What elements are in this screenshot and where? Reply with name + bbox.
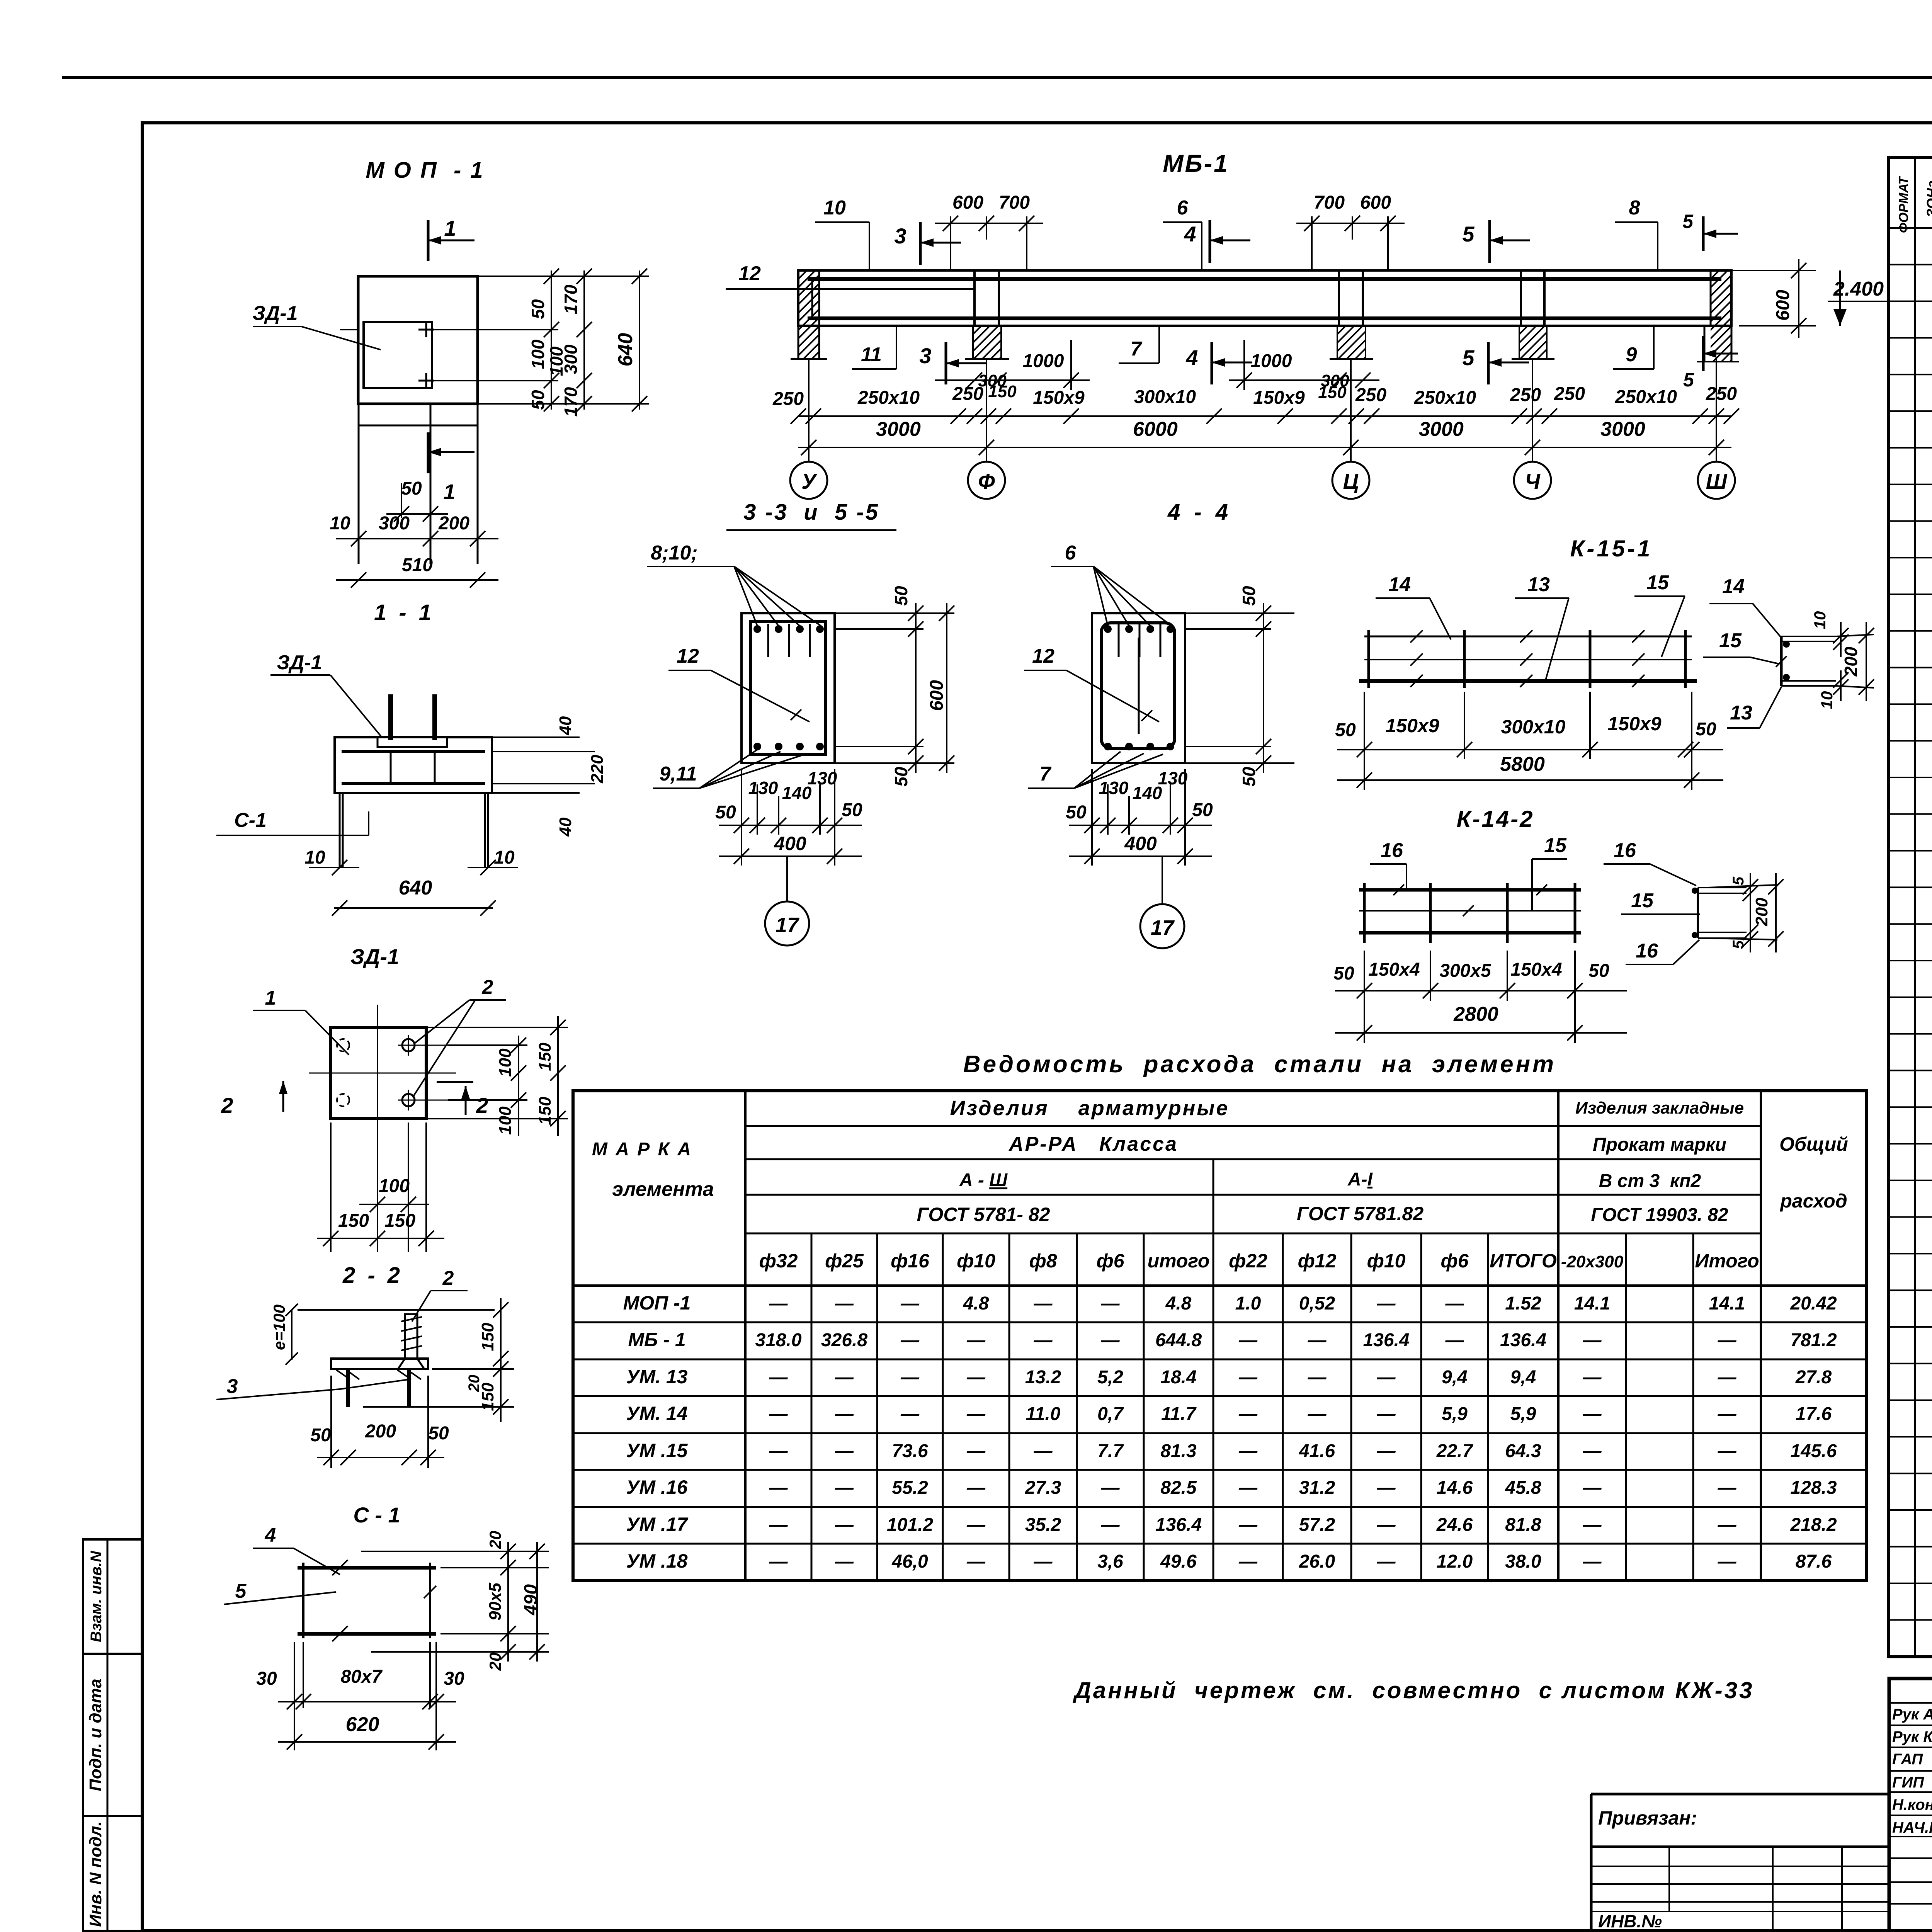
- svg-text:250: 250: [1355, 385, 1386, 405]
- svg-text:ф32: ф32: [759, 1250, 798, 1272]
- svg-text:—: —: [1583, 1478, 1602, 1498]
- svg-text:—: —: [835, 1551, 854, 1572]
- svg-text:12.0: 12.0: [1437, 1551, 1473, 1572]
- svg-text:ГОСТ 5781- 82: ГОСТ 5781- 82: [917, 1204, 1050, 1225]
- К-14-2 cross-section: [1697, 888, 1699, 938]
- svg-text:У: У: [801, 469, 818, 493]
- dims right 20/90x5/490/20: [440, 1567, 549, 1568]
- svg-text:150x9: 150x9: [1607, 713, 1661, 735]
- svg-text:2800: 2800: [1453, 1003, 1498, 1026]
- svg-text:220: 220: [588, 755, 607, 784]
- top rebar line: [342, 750, 485, 753]
- svg-text:—: —: [1101, 1293, 1120, 1314]
- cs dims 5/200/5: [1708, 885, 1777, 888]
- svg-text:—: —: [1238, 1441, 1258, 1461]
- svg-text:150: 150: [536, 1043, 554, 1071]
- svg-text:3,6: 3,6: [1097, 1551, 1123, 1572]
- svg-text:—: —: [966, 1367, 986, 1388]
- leader to top bar: [1094, 566, 1108, 626]
- 1-1 body rect: [335, 737, 492, 793]
- bottom rebar dot: [796, 743, 804, 750]
- svg-text:5: 5: [235, 1580, 247, 1602]
- svg-text:ф22: ф22: [1229, 1250, 1267, 1272]
- svg-text:—: —: [966, 1441, 986, 1461]
- svg-text:50: 50: [528, 299, 548, 319]
- svg-text:4: 4: [1185, 345, 1198, 370]
- svg-text:9,4: 9,4: [1442, 1367, 1468, 1388]
- svg-text:—: —: [966, 1551, 986, 1572]
- svg-text:6000: 6000: [1133, 418, 1178, 440]
- svg-text:4.8: 4.8: [963, 1293, 989, 1314]
- svg-text:250: 250: [1510, 385, 1541, 405]
- svg-text:50: 50: [1588, 961, 1609, 981]
- svg-text:700: 700: [1314, 192, 1345, 213]
- svg-text:—: —: [835, 1441, 854, 1461]
- svg-text:—: —: [1101, 1330, 1120, 1350]
- dim 640 vertical: [639, 270, 640, 410]
- svg-text:—: —: [1308, 1404, 1327, 1424]
- привязан zone grid: [1591, 1793, 1889, 1796]
- svg-text:—: —: [1238, 1551, 1258, 1572]
- bottom rebar dot: [816, 743, 824, 750]
- svg-text:—: —: [769, 1404, 788, 1424]
- circle 17 left: [786, 856, 788, 901]
- svg-text:—: —: [1445, 1293, 1464, 1314]
- svg-text:16: 16: [1614, 839, 1636, 862]
- svg-text:1 - 1: 1 - 1: [374, 600, 434, 625]
- svg-text:17: 17: [776, 913, 800, 937]
- svg-text:22.7: 22.7: [1436, 1441, 1474, 1461]
- svg-text:ЗОНа: ЗОНа: [1924, 180, 1932, 218]
- svg-text:—: —: [966, 1330, 986, 1350]
- svg-text:50: 50: [715, 802, 736, 823]
- svg-text:130: 130: [748, 778, 778, 798]
- svg-text:50: 50: [310, 1425, 331, 1446]
- svg-text:15: 15: [1631, 889, 1654, 912]
- svg-text:ф8: ф8: [1029, 1250, 1057, 1272]
- svg-text:620: 620: [346, 1713, 379, 1736]
- grid line Ш: [1716, 359, 1717, 461]
- svg-text:510: 510: [402, 555, 433, 575]
- svg-text:3000: 3000: [1600, 418, 1645, 440]
- svg-text:ИНВ.№: ИНВ.№: [1598, 1911, 1662, 1931]
- svg-text:200: 200: [438, 513, 469, 534]
- svg-text:5: 5: [1462, 222, 1475, 246]
- svg-text:Н.контр.: Н.контр.: [1892, 1796, 1932, 1813]
- svg-text:—: —: [1718, 1515, 1737, 1535]
- Ведомость grid: [573, 1091, 1866, 1580]
- svg-text:81.8: 81.8: [1505, 1515, 1541, 1535]
- svg-text:—: —: [835, 1404, 854, 1424]
- stirrup: [974, 279, 976, 318]
- К-15-1 vertical bar: [1589, 630, 1592, 688]
- svg-text:300x5: 300x5: [1439, 961, 1492, 981]
- svg-text:150: 150: [338, 1211, 369, 1231]
- svg-text:УМ .17: УМ .17: [626, 1514, 689, 1535]
- svg-text:5: 5: [1462, 345, 1475, 370]
- svg-text:40: 40: [556, 716, 575, 735]
- svg-text:14: 14: [1388, 573, 1411, 596]
- svg-text:250: 250: [952, 384, 983, 404]
- svg-text:—: —: [966, 1478, 986, 1498]
- svg-text:13.2: 13.2: [1025, 1367, 1061, 1388]
- svg-text:Ведомость расхода стали на: Ведомость расхода стали на элемент: [963, 1051, 1556, 1078]
- bottom rebar dot: [1167, 743, 1174, 750]
- beam top rebar: [808, 277, 1721, 281]
- svg-text:Рук КБ-1: Рук КБ-1: [1892, 1728, 1932, 1745]
- svg-text:Общий: Общий: [1779, 1133, 1848, 1155]
- svg-text:—: —: [1034, 1330, 1053, 1350]
- 1-1 top plate: [378, 737, 447, 747]
- svg-text:В ст 3 кп2: В ст 3 кп2: [1599, 1171, 1701, 1191]
- svg-text:11.7: 11.7: [1161, 1404, 1197, 1424]
- svg-text:—: —: [1583, 1404, 1602, 1424]
- title block grid: [1889, 1679, 1932, 1931]
- svg-text:Итого: Итого: [1695, 1250, 1759, 1272]
- 1-1 dim 640: [334, 907, 493, 909]
- svg-text:45.8: 45.8: [1505, 1478, 1541, 1498]
- stirrup: [998, 279, 1000, 318]
- svg-text:150: 150: [988, 382, 1017, 401]
- left attribute table: [83, 1539, 142, 1931]
- svg-text:128.3: 128.3: [1790, 1478, 1837, 1498]
- svg-text:13: 13: [1527, 573, 1550, 596]
- svg-text:150: 150: [1318, 383, 1347, 402]
- svg-text:250x10: 250x10: [857, 388, 920, 408]
- hook: [1160, 624, 1162, 657]
- leader to top bar: [734, 566, 779, 626]
- svg-text:—: —: [1377, 1404, 1396, 1424]
- svg-text:6: 6: [1065, 542, 1077, 564]
- bottom dim 510: [336, 579, 498, 581]
- svg-text:7: 7: [1040, 763, 1052, 785]
- section mark 1 (bottom): [427, 432, 430, 473]
- leader to top bar: [734, 566, 757, 626]
- svg-text:15: 15: [1544, 834, 1567, 857]
- bottom dim 10/300/200: [336, 538, 498, 539]
- support Ч: [1520, 270, 1522, 326]
- svg-text:—: —: [1238, 1515, 1258, 1535]
- К-14-2 vertical bar: [1574, 883, 1577, 943]
- svg-text:4: 4: [1184, 222, 1196, 246]
- svg-text:600: 600: [927, 680, 947, 711]
- hook: [788, 624, 790, 657]
- svg-text:МОП -1: МОП -1: [623, 1292, 691, 1314]
- svg-text:—: —: [1718, 1441, 1737, 1461]
- svg-text:14: 14: [1722, 575, 1745, 598]
- svg-text:К-14-2: К-14-2: [1457, 806, 1534, 832]
- svg-text:20: 20: [486, 1653, 504, 1671]
- svg-text:ф16: ф16: [891, 1250, 930, 1272]
- К-15-1 cross-section: [1780, 636, 1783, 686]
- top rule of sheet: [62, 76, 1932, 79]
- grid circle Ф: [968, 462, 1005, 499]
- К-14-2 bottom rail (thick): [1359, 931, 1581, 935]
- svg-text:—: —: [1308, 1330, 1327, 1350]
- svg-text:1: 1: [444, 216, 456, 240]
- svg-text:200: 200: [1841, 646, 1861, 677]
- hole top: [402, 1039, 415, 1051]
- svg-text:М О П - 1: М О П - 1: [366, 158, 484, 183]
- svg-text:30: 30: [444, 1668, 464, 1689]
- svg-text:250x10: 250x10: [1414, 388, 1476, 408]
- svg-text:ф6: ф6: [1440, 1250, 1469, 1272]
- svg-text:М А Р К А: М А Р К А: [592, 1139, 692, 1160]
- svg-text:—: —: [835, 1367, 854, 1388]
- support Ш (right end): [1619, 270, 1830, 362]
- svg-text:170: 170: [561, 284, 581, 314]
- svg-text:ГОСТ 19903. 82: ГОСТ 19903. 82: [1591, 1205, 1728, 1225]
- extension lines right: [492, 736, 580, 738]
- svg-text:16: 16: [1636, 940, 1658, 962]
- spec table grid: [1889, 158, 1932, 1656]
- grid line Ц: [1350, 359, 1352, 461]
- svg-text:8: 8: [1629, 197, 1640, 219]
- svg-text:e=100: e=100: [270, 1304, 288, 1350]
- svg-text:3000: 3000: [1419, 418, 1464, 440]
- svg-text:—: —: [966, 1515, 986, 1535]
- svg-text:2: 2: [442, 1267, 454, 1289]
- svg-text:15: 15: [1719, 629, 1742, 652]
- К-15-1 vertical bar: [1684, 630, 1687, 688]
- svg-text:90x5: 90x5: [486, 1583, 505, 1621]
- svg-text:—: —: [769, 1515, 788, 1535]
- svg-text:4.8: 4.8: [1165, 1293, 1192, 1314]
- svg-text:100: 100: [496, 1048, 515, 1077]
- rail tick: [1410, 630, 1423, 643]
- stirrup rounded: [1101, 623, 1175, 748]
- svg-text:—: —: [900, 1293, 920, 1314]
- svg-text:—: —: [900, 1404, 920, 1424]
- beam 600 dim right: [1731, 270, 1816, 271]
- svg-text:26.0: 26.0: [1299, 1551, 1335, 1572]
- svg-text:50: 50: [1239, 586, 1259, 606]
- top rebar dot: [1104, 625, 1112, 633]
- anchor cross top: [418, 329, 434, 331]
- svg-text:1.52: 1.52: [1505, 1293, 1541, 1314]
- svg-text:—: —: [1718, 1551, 1737, 1572]
- svg-text:ф25: ф25: [825, 1250, 864, 1272]
- circle 17 right: [1162, 856, 1163, 904]
- К-15-1 vertical bar: [1367, 630, 1370, 688]
- 4-4 right dims: [1185, 612, 1294, 614]
- bottom rebar dot: [753, 743, 761, 750]
- svg-text:18.4: 18.4: [1160, 1367, 1196, 1388]
- svg-text:31.2: 31.2: [1299, 1478, 1335, 1498]
- svg-text:3: 3: [919, 344, 931, 368]
- svg-text:644.8: 644.8: [1155, 1330, 1202, 1350]
- svg-text:К-15-1: К-15-1: [1570, 536, 1653, 561]
- К-15-1 bottom rail (thick): [1359, 679, 1697, 683]
- svg-text:12: 12: [738, 262, 761, 285]
- svg-text:9,11: 9,11: [659, 763, 697, 785]
- ЗД-1 plate rect: [331, 1027, 426, 1119]
- svg-text:50: 50: [1333, 963, 1354, 984]
- svg-text:64.3: 64.3: [1505, 1441, 1541, 1461]
- top rebar dot: [1167, 625, 1174, 633]
- svg-text:136.4: 136.4: [1500, 1330, 1546, 1350]
- svg-text:49.6: 49.6: [1160, 1551, 1197, 1572]
- svg-text:400: 400: [774, 833, 806, 854]
- svg-text:Подп. и дата: Подп. и дата: [86, 1679, 105, 1791]
- svg-text:АР-РА Класса: АР-РА Класса: [1008, 1133, 1178, 1155]
- svg-text:250: 250: [772, 389, 804, 409]
- svg-text:150: 150: [478, 1323, 497, 1351]
- bottom rebar line: [342, 782, 485, 785]
- hole bottom: [402, 1094, 415, 1106]
- svg-text:35.2: 35.2: [1025, 1515, 1061, 1535]
- svg-text:20: 20: [486, 1531, 504, 1549]
- stirrup: [1338, 279, 1340, 318]
- svg-text:16: 16: [1381, 839, 1403, 862]
- svg-text:50: 50: [891, 767, 911, 787]
- svg-text:400: 400: [1124, 833, 1157, 854]
- svg-text:Рук АБ-1: Рук АБ-1: [1892, 1706, 1932, 1723]
- right dim 100/100: [448, 1044, 527, 1046]
- svg-text:ф10: ф10: [957, 1250, 995, 1272]
- svg-text:0,52: 0,52: [1299, 1293, 1335, 1314]
- svg-text:130: 130: [1158, 768, 1188, 788]
- rail tick: [1632, 630, 1645, 643]
- svg-text:ф10: ф10: [1367, 1250, 1406, 1272]
- bottom rebar dot: [1104, 743, 1112, 750]
- С-1 ticks on bars: [332, 1560, 348, 1575]
- svg-text:ГАП: ГАП: [1892, 1751, 1923, 1768]
- svg-text:3: 3: [894, 224, 906, 248]
- svg-text:8;10;: 8;10;: [651, 542, 697, 564]
- top rebar dot: [1125, 625, 1133, 633]
- ЗД-1 inset plate: [364, 322, 432, 388]
- svg-text:А - Ш: А - Ш: [959, 1170, 1008, 1190]
- support Ц: [1338, 270, 1340, 326]
- svg-text:—: —: [1101, 1478, 1120, 1498]
- beam bottom rebar: [808, 316, 1721, 320]
- svg-text:итого: итого: [1148, 1250, 1210, 1272]
- С-1 frame: bottom bar: [298, 1632, 436, 1636]
- svg-text:—: —: [1034, 1551, 1053, 1572]
- svg-text:10: 10: [823, 197, 846, 219]
- С-1 frame: top bar: [298, 1566, 436, 1570]
- svg-text:Привязан:: Привязан:: [1598, 1807, 1697, 1829]
- svg-text:100: 100: [379, 1176, 410, 1196]
- svg-text:50: 50: [1192, 800, 1213, 820]
- svg-text:200: 200: [1752, 898, 1771, 927]
- rail tick: [1520, 630, 1532, 643]
- stirrup: [1520, 279, 1522, 318]
- leader to top bar: [734, 566, 800, 626]
- svg-text:5: 5: [1683, 369, 1694, 391]
- svg-text:-20х300: -20х300: [1561, 1252, 1624, 1271]
- svg-text:10: 10: [494, 847, 515, 868]
- К-14-2 ticks: [1393, 884, 1404, 895]
- svg-text:—: —: [1718, 1367, 1737, 1388]
- section mark 1 (top): [427, 220, 430, 261]
- svg-text:1000: 1000: [1023, 351, 1064, 371]
- svg-text:5,9: 5,9: [1442, 1404, 1468, 1424]
- column edges below plate: [358, 404, 360, 564]
- svg-text:—: —: [1377, 1478, 1396, 1498]
- svg-text:10: 10: [330, 513, 350, 534]
- svg-text:3 -3 и 5 -5: 3 -3 и 5 -5: [743, 500, 879, 525]
- svg-text:150: 150: [478, 1383, 497, 1411]
- svg-text:—: —: [769, 1367, 788, 1388]
- svg-text:Изделия арматурные: Изделия арматурные: [950, 1097, 1230, 1120]
- stirrup rect: [750, 621, 826, 754]
- svg-text:—: —: [1308, 1367, 1327, 1388]
- svg-text:6: 6: [1177, 197, 1189, 219]
- svg-text:УМ .15: УМ .15: [626, 1440, 688, 1461]
- bolt flare: [398, 1359, 405, 1369]
- svg-text:—: —: [769, 1551, 788, 1572]
- grid circle Ц: [1332, 462, 1369, 499]
- centerlines: [377, 1005, 378, 1144]
- svg-text:81.3: 81.3: [1160, 1441, 1197, 1461]
- legs below: [339, 793, 341, 868]
- svg-text:318.0: 318.0: [755, 1330, 801, 1350]
- beam outline: [798, 270, 1731, 326]
- svg-text:200: 200: [365, 1421, 396, 1442]
- svg-text:600: 600: [1773, 290, 1793, 321]
- svg-text:250: 250: [1706, 384, 1737, 404]
- svg-text:ФОРМАТ: ФОРМАТ: [1896, 175, 1911, 233]
- svg-text:130: 130: [1099, 778, 1129, 798]
- svg-text:—: —: [835, 1478, 854, 1498]
- svg-text:57.2: 57.2: [1299, 1515, 1335, 1535]
- svg-text:101.2: 101.2: [887, 1515, 933, 1535]
- svg-text:10: 10: [1811, 611, 1829, 629]
- bolt shank: [405, 1314, 417, 1359]
- svg-text:7: 7: [1131, 338, 1143, 360]
- svg-text:27.8: 27.8: [1795, 1367, 1832, 1388]
- К-14-2 vertical bar: [1506, 883, 1509, 943]
- anchor cross bottom: [418, 380, 434, 382]
- svg-text:3: 3: [227, 1375, 238, 1398]
- svg-text:50: 50: [528, 390, 548, 410]
- svg-text:ф12: ф12: [1298, 1250, 1337, 1272]
- svg-text:136.4: 136.4: [1155, 1515, 1202, 1535]
- svg-text:5,9: 5,9: [1510, 1404, 1536, 1424]
- svg-text:55.2: 55.2: [892, 1478, 928, 1498]
- svg-text:50: 50: [891, 586, 911, 606]
- svg-text:—: —: [1034, 1441, 1053, 1461]
- leader to top bar: [1094, 566, 1172, 626]
- svg-text:12: 12: [1032, 645, 1054, 667]
- svg-text:—: —: [1583, 1441, 1602, 1461]
- svg-text:2: 2: [221, 1093, 233, 1117]
- svg-text:640: 640: [399, 877, 432, 899]
- svg-text:170: 170: [561, 387, 581, 417]
- mid vertical bar: [1138, 638, 1140, 734]
- svg-text:Ш: Ш: [1706, 469, 1728, 493]
- svg-text:150x9: 150x9: [1253, 388, 1305, 408]
- bottom rebar dot: [1125, 743, 1133, 750]
- mark 5 small bottom: [1702, 336, 1705, 371]
- dims e100/150/20/150 right: [298, 1309, 495, 1311]
- svg-text:УМ .16: УМ .16: [626, 1476, 688, 1498]
- svg-text:700: 700: [999, 192, 1030, 213]
- svg-text:5: 5: [1730, 940, 1747, 949]
- svg-text:300: 300: [379, 513, 410, 534]
- svg-text:—: —: [1377, 1551, 1396, 1572]
- svg-text:50: 50: [1239, 767, 1259, 787]
- svg-text:—: —: [835, 1293, 854, 1314]
- section 4-4 rect: [1092, 613, 1185, 763]
- svg-text:11.0: 11.0: [1026, 1404, 1061, 1424]
- top rebar dot: [796, 625, 804, 633]
- svg-text:ЗД-1: ЗД-1: [350, 944, 399, 969]
- К-15-1 vertical bar: [1463, 630, 1466, 688]
- dim row 2 (3000/6000/3000/3000): [798, 447, 1731, 448]
